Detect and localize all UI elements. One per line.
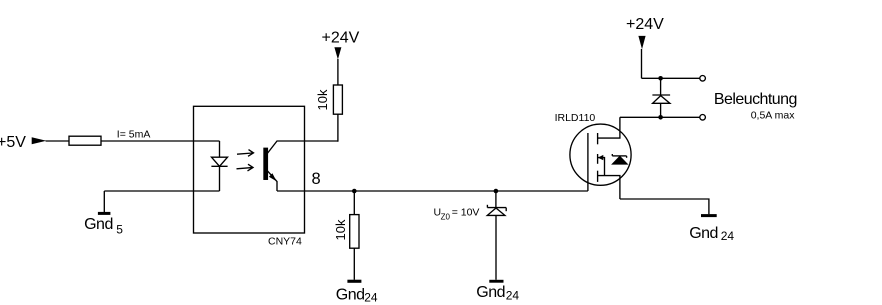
MOSFET drain connection (598, 117, 620, 138)
wire R3 to ground (353, 248, 355, 280)
wire +5V arrow to R1 (46, 140, 70, 142)
LED D1 of optocoupler (211, 141, 227, 191)
wire R2 to collector (337, 114, 339, 142)
+24V label left (322, 29, 360, 46)
ground Gnd24 right (701, 214, 717, 217)
resistor R2 10k pull-up (333, 85, 342, 114)
phototransistor collector (267, 141, 339, 155)
svg-text:Gnd: Gnd (689, 225, 718, 242)
freewheel diode D2 (652, 78, 670, 117)
wire node 8 to R3 (353, 191, 355, 215)
light arrow 2 (237, 164, 254, 171)
light arrow 1 (237, 150, 254, 157)
MOSFET channel dashes (597, 133, 599, 182)
emitter arrowhead (269, 173, 277, 181)
MOSFET body connection (598, 158, 605, 176)
label Uz0 = 10V (434, 207, 480, 222)
phototransistor base bar (264, 148, 267, 179)
+24V arrow right (638, 36, 645, 49)
label Beleuchtung (714, 91, 797, 108)
wire node 8 rail (277, 190, 588, 192)
svg-text:24: 24 (721, 229, 735, 243)
wire zener to ground (495, 215, 497, 279)
wire +24V to R2 (337, 59, 339, 85)
MOSFET body arrowhead (598, 155, 604, 160)
optocoupler box U1 (194, 106, 305, 233)
svg-text:+24V: +24V (322, 29, 360, 46)
label 10k R3 (333, 219, 348, 240)
ground Gnd24 under zener (489, 280, 503, 283)
svg-text:I= 5mA: I= 5mA (117, 129, 151, 141)
wire LED cathode to Gnd5 (104, 190, 219, 192)
phototransistor emitter (267, 170, 278, 191)
label CNY74 (268, 236, 302, 248)
resistor R1 (69, 136, 101, 145)
resistor R3 10k (350, 215, 359, 249)
+5V source arrow (32, 137, 47, 144)
label IRLD110 (555, 112, 596, 124)
junction node 8 / R3 (352, 189, 357, 194)
node +5V label (0, 134, 26, 151)
wire R1 to LED anode (101, 140, 220, 142)
MOSFET body diode (612, 154, 627, 164)
svg-text:Gnd: Gnd (84, 216, 113, 233)
MOSFET source connection (598, 176, 620, 199)
label 0,5A max (751, 110, 796, 122)
ground Gnd5 (98, 212, 111, 215)
ground Gnd24 under R3 (347, 280, 361, 283)
wire source to ground corner (620, 199, 709, 214)
junction diode bottom (658, 115, 663, 120)
svg-text:Z0: Z0 (441, 213, 451, 222)
wire +24V to terminal top (642, 77, 700, 79)
wire +24V down (641, 49, 643, 78)
junction node 8 / zener (494, 189, 499, 194)
svg-text:24: 24 (364, 290, 378, 304)
junction diode top (658, 76, 663, 81)
svg-text:Beleuchtung: Beleuchtung (714, 91, 797, 108)
+24V arrow left (334, 47, 341, 59)
svg-text:Gnd: Gnd (476, 284, 505, 301)
svg-text:10k: 10k (333, 219, 348, 240)
svg-text:IRLD110: IRLD110 (555, 112, 596, 124)
svg-text:5: 5 (116, 223, 123, 237)
label I= 5mA (117, 129, 151, 141)
svg-text:CNY74: CNY74 (268, 236, 302, 248)
+24V label right (626, 16, 664, 33)
terminal circle bottom (700, 115, 706, 121)
label 10k R2 (315, 89, 330, 110)
pin number 8 (312, 170, 321, 188)
wire down to Gnd5 (103, 191, 105, 212)
terminal circle top (700, 76, 706, 82)
svg-text:+5V: +5V (0, 134, 26, 151)
wire drain to terminal bottom (620, 116, 700, 118)
svg-text:10k: 10k (315, 89, 330, 110)
svg-text:+24V: +24V (626, 16, 664, 33)
MOSFET gate bar (587, 133, 589, 191)
svg-text:8: 8 (312, 170, 321, 188)
svg-text:0,5A max: 0,5A max (751, 110, 796, 122)
svg-text:24: 24 (506, 288, 520, 302)
svg-text:= 10V: = 10V (452, 207, 480, 219)
svg-text:Gnd: Gnd (336, 286, 365, 303)
zener diode D3 (487, 205, 506, 216)
MOSFET Q1 circle (570, 124, 631, 185)
wire node 8 to zener (495, 191, 497, 208)
